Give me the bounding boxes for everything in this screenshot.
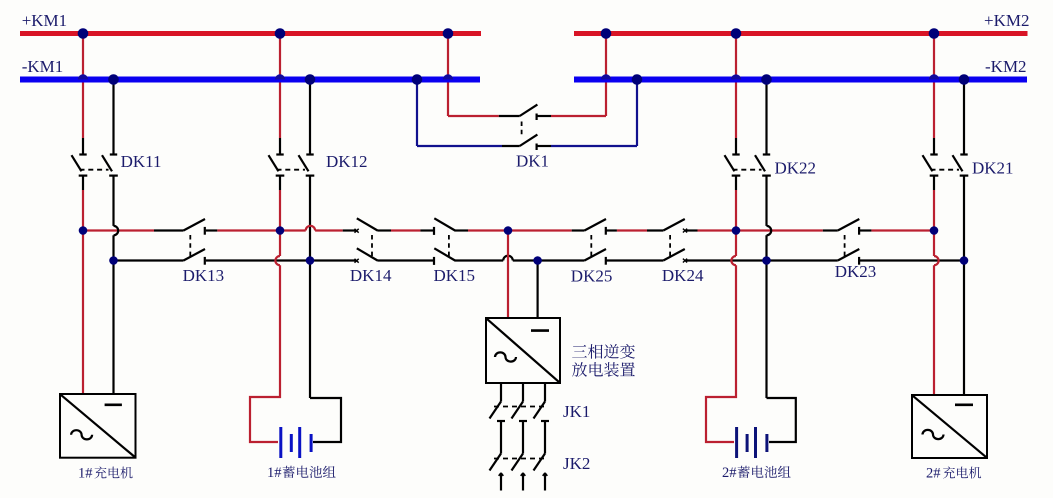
svg-text:JK2: JK2 (563, 454, 590, 473)
svg-text:DK13: DK13 (183, 266, 225, 285)
svg-text:-KM2: -KM2 (985, 57, 1027, 76)
svg-text:+KM2: +KM2 (984, 11, 1029, 30)
svg-text:JK1: JK1 (563, 402, 590, 421)
svg-text:DK15: DK15 (434, 266, 476, 285)
svg-text:+KM1: +KM1 (22, 11, 67, 30)
svg-text:DK24: DK24 (662, 266, 704, 285)
svg-text:DK23: DK23 (835, 262, 877, 281)
svg-text:DK12: DK12 (326, 152, 368, 171)
svg-text:DK25: DK25 (571, 267, 613, 286)
svg-text:DK14: DK14 (350, 266, 392, 285)
svg-text:DK21: DK21 (972, 159, 1014, 178)
svg-text:-KM1: -KM1 (22, 57, 64, 76)
svg-text:1#: 1# (267, 465, 282, 481)
svg-text:1#: 1# (78, 466, 93, 482)
svg-text:2#: 2# (926, 466, 941, 482)
svg-text:DK11: DK11 (121, 152, 162, 171)
svg-text:DK1: DK1 (516, 152, 549, 171)
svg-text:2#: 2# (722, 465, 737, 481)
svg-text:DK22: DK22 (775, 159, 817, 178)
